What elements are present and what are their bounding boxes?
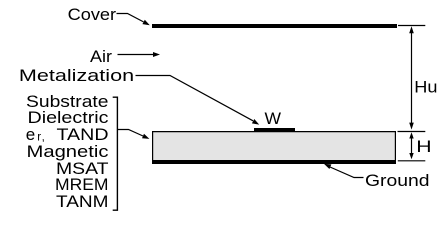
extension line at substrate bottom bbox=[398, 160, 426, 162]
extension line at substrate top bbox=[398, 131, 426, 133]
arrowhead Hu down bbox=[409, 123, 414, 130]
arrowhead ground leader bbox=[324, 164, 331, 169]
svg-text:H: H bbox=[416, 138, 431, 157]
wire cover leader line bbox=[117, 14, 144, 22]
svg-text:Metalization: Metalization bbox=[19, 66, 134, 85]
dimension line Hu bbox=[411, 30, 413, 126]
svg-text:Cover: Cover bbox=[68, 5, 117, 24]
wire metalization leader line bbox=[136, 76, 254, 121]
dimension line H bbox=[411, 135, 413, 157]
ground plane bar bbox=[152, 160, 396, 164]
extension line at cover level bbox=[398, 25, 425, 27]
svg-text:Air: Air bbox=[90, 47, 112, 66]
arrowhead bracket leader bbox=[142, 134, 149, 139]
microstrip conductor W bbox=[254, 128, 295, 131]
svg-text:Ground: Ground bbox=[365, 171, 430, 190]
arrowhead air arrow bbox=[153, 52, 160, 57]
arrowhead cover leader bbox=[142, 20, 149, 26]
arrowhead H down bbox=[409, 153, 413, 159]
bracket right of substrate list bbox=[113, 97, 118, 210]
arrowhead Hu up bbox=[409, 26, 414, 33]
svg-text:W: W bbox=[265, 109, 282, 128]
substrate body bbox=[153, 132, 396, 164]
wire air arrow shaft bbox=[118, 54, 154, 56]
arrowhead metalization leader bbox=[252, 119, 259, 125]
arrowhead H up bbox=[409, 132, 413, 138]
wire ground leader line bbox=[330, 167, 364, 178]
wire bracket leader line bbox=[117, 130, 143, 137]
cover bar bbox=[152, 24, 397, 28]
svg-text:Hu: Hu bbox=[414, 77, 437, 96]
svg-text:TANM: TANM bbox=[56, 192, 109, 211]
